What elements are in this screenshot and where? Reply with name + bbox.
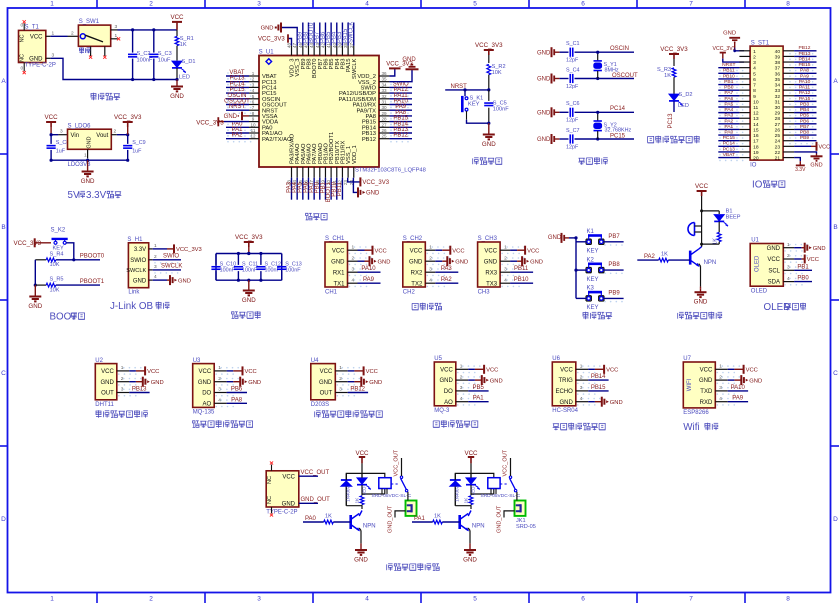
svg-text:5: 5 xyxy=(473,1,477,8)
svg-text:10: 10 xyxy=(753,99,759,105)
svg-text:13: 13 xyxy=(753,116,759,122)
svg-text:1K: 1K xyxy=(325,514,332,520)
S_CH1 pin2 GND port xyxy=(358,256,391,266)
relay wiring box xyxy=(346,473,385,505)
svg-text:40: 40 xyxy=(775,49,781,55)
resistor S_R4 10K xyxy=(35,251,100,268)
svg-text:7: 7 xyxy=(689,596,693,603)
svg-text:D: D xyxy=(833,516,838,523)
svg-text:STM32F103C8T6_LQFP48: STM32F103C8T6_LQFP48 xyxy=(355,168,426,174)
svg-text:VCC: VCC xyxy=(245,369,257,375)
svg-text:3: 3 xyxy=(257,596,261,603)
svg-text:3: 3 xyxy=(257,1,261,8)
connector TYPE-C-2P output xyxy=(266,461,299,516)
svg-text:GND: GND xyxy=(610,400,623,406)
MCU bottom pin leads and numbers xyxy=(287,167,354,185)
relay output terminal JK1 SRD-05 xyxy=(388,492,417,533)
svg-text:PB7: PB7 xyxy=(800,124,810,130)
svg-text:PA15: PA15 xyxy=(799,96,811,102)
svg-text:S_K2: S_K2 xyxy=(51,228,66,234)
svg-text:S_C3: S_C3 xyxy=(158,51,172,57)
svg-text:30: 30 xyxy=(775,105,781,111)
wire GND_OUT label xyxy=(299,497,330,503)
svg-text:8: 8 xyxy=(252,111,255,116)
svg-text:33: 33 xyxy=(381,88,387,93)
U7 pin4 net PA9 xyxy=(728,396,748,402)
wire LDO Vout to VCC_3V3 xyxy=(111,129,129,137)
capacitor S_C12 100nF xyxy=(256,254,281,281)
ST1 pin22 GND xyxy=(794,152,823,169)
module U7 ESP8266 body xyxy=(683,356,740,416)
OLED module U1 body xyxy=(750,238,808,295)
svg-text:32: 32 xyxy=(381,94,387,99)
svg-text:1uF: 1uF xyxy=(56,149,66,155)
key K2 wires and net PB8 xyxy=(576,262,624,274)
capacitor S_C3 10uF xyxy=(149,30,172,80)
svg-text:2: 2 xyxy=(753,54,756,60)
svg-text:PA0: PA0 xyxy=(305,516,317,522)
capacitor S_C9 1uF xyxy=(123,135,146,161)
relay contact and VCC_OUT xyxy=(500,449,517,492)
transistor NPN alarm xyxy=(690,243,716,267)
svg-text:VCC_3V3: VCC_3V3 xyxy=(235,234,263,241)
svg-text:VCC: VCC xyxy=(30,34,43,40)
svg-text:38: 38 xyxy=(775,60,781,66)
svg-text:PA12: PA12 xyxy=(799,90,811,96)
svg-text:LED: LED xyxy=(361,486,366,496)
svg-text:ESP8266: ESP8266 xyxy=(683,410,709,416)
relay LED xyxy=(466,473,480,495)
switch label kai-guan xyxy=(80,47,85,53)
svg-text:3: 3 xyxy=(115,24,118,30)
svg-text:VCC: VCC xyxy=(452,248,464,254)
svg-text:19: 19 xyxy=(753,150,759,156)
svg-text:Vout: Vout xyxy=(96,133,108,139)
svg-text:PA2: PA2 xyxy=(724,118,733,124)
svg-text:8MHz: 8MHz xyxy=(605,68,619,74)
svg-text:PB6: PB6 xyxy=(800,118,810,124)
ST1 left pin leads xyxy=(739,51,750,158)
svg-text:8: 8 xyxy=(753,88,756,94)
svg-text:1N4007: 1N4007 xyxy=(455,486,460,502)
S_CH2 pin1 VCC port xyxy=(435,246,464,255)
svg-text:VCC_3V3: VCC_3V3 xyxy=(258,37,285,43)
ST1 ground port to pin 1 xyxy=(723,31,744,53)
svg-text:25: 25 xyxy=(381,134,387,139)
MCU top net wires GND and VCC_3V3 xyxy=(258,23,297,46)
resistor 1K in LED branch xyxy=(702,232,722,245)
svg-text:11: 11 xyxy=(753,105,758,111)
svg-text:PA6: PA6 xyxy=(724,96,733,102)
svg-text:PA1: PA1 xyxy=(414,516,426,522)
svg-text:24: 24 xyxy=(775,139,781,145)
svg-text:RX3: RX3 xyxy=(485,270,497,276)
svg-text:4: 4 xyxy=(365,596,369,603)
svg-text:AO: AO xyxy=(203,401,212,407)
svg-text:D: D xyxy=(1,516,6,523)
svg-text:VCC_3V3: VCC_3V3 xyxy=(713,46,736,52)
key bus wire xyxy=(574,236,577,298)
power port VCC xyxy=(170,14,184,30)
ground for keys xyxy=(548,233,576,243)
MCU bottom pin names xyxy=(290,132,358,164)
svg-text:NC: NC xyxy=(267,496,273,504)
svg-text:GND: GND xyxy=(178,278,191,284)
svg-text:PA7: PA7 xyxy=(724,90,733,96)
svg-text:4: 4 xyxy=(352,278,355,284)
key K3 wires and net PB9 xyxy=(576,290,624,302)
U6 pin1 vcc VCC xyxy=(588,365,618,374)
U5 pin3 net PB5 xyxy=(468,385,488,391)
key K1 wires and net PB7 xyxy=(576,234,624,246)
svg-text:35: 35 xyxy=(775,77,781,83)
svg-text:39: 39 xyxy=(775,54,781,60)
svg-text:VCC_OUT: VCC_OUT xyxy=(503,449,509,476)
U3 pin4 net PA8 xyxy=(227,397,247,403)
svg-text:SWCLK: SWCLK xyxy=(352,58,358,79)
J-Link pin 2 SWIO xyxy=(149,254,181,264)
svg-text:36: 36 xyxy=(381,71,387,76)
svg-text:VCC_OUT: VCC_OUT xyxy=(394,449,400,476)
svg-text:Vin: Vin xyxy=(71,133,80,139)
svg-text:PA11: PA11 xyxy=(799,85,811,91)
svg-text:18: 18 xyxy=(753,144,759,150)
wire T1 GND down to bottom rail xyxy=(46,52,133,79)
svg-text:K2: K2 xyxy=(587,257,595,263)
power port VCC_3V3 reset xyxy=(475,42,503,63)
svg-text:3: 3 xyxy=(252,82,255,87)
svg-text:34: 34 xyxy=(775,83,781,89)
power port VCC_3V3 at LDO output xyxy=(114,114,142,135)
svg-text:23: 23 xyxy=(775,144,781,150)
MCU VDD_1 to VCC_3V3 xyxy=(348,177,390,186)
S_CH1 pin4 net PA9 xyxy=(358,277,381,283)
caption human infrared module xyxy=(315,411,321,418)
svg-text:VCC_3V3: VCC_3V3 xyxy=(362,180,389,186)
connector S_T1 TYPE-C-2P xyxy=(19,23,56,72)
svg-text:TX1: TX1 xyxy=(333,281,345,287)
svg-text:TYPE-C-2P: TYPE-C-2P xyxy=(25,63,56,69)
svg-text:MQ-135: MQ-135 xyxy=(193,410,215,416)
svg-text:DHT11: DHT11 xyxy=(95,402,114,408)
svg-text:VCC: VCC xyxy=(355,450,369,457)
svg-text:PA3: PA3 xyxy=(724,113,733,119)
svg-text:VCC_3V3: VCC_3V3 xyxy=(176,247,202,253)
S_CH3 pin3 net PB11 xyxy=(510,266,533,272)
svg-text:GND: GND xyxy=(810,163,822,169)
svg-text:PB11: PB11 xyxy=(514,266,529,272)
S_CH3 pin2 GND port xyxy=(510,256,543,266)
svg-text:C: C xyxy=(833,370,838,377)
svg-text:6: 6 xyxy=(581,1,585,8)
capacitor S_C8 1uF xyxy=(47,135,70,161)
svg-text:SCL: SCL xyxy=(768,268,780,274)
svg-text:21: 21 xyxy=(775,156,781,162)
svg-text:PA1: PA1 xyxy=(724,124,733,130)
caption mixed gas detect module xyxy=(193,421,199,428)
svg-text:LED: LED xyxy=(179,75,190,81)
ground filter xyxy=(242,280,256,304)
svg-text:GND: GND xyxy=(170,93,184,100)
svg-text:KEY: KEY xyxy=(468,101,480,107)
crystal cap S_C6 row PC14 xyxy=(537,101,634,124)
svg-text:7: 7 xyxy=(252,105,255,110)
svg-text:S_D1: S_D1 xyxy=(182,59,196,65)
svg-text:1K: 1K xyxy=(664,73,671,79)
svg-text:Wifi: Wifi xyxy=(683,422,699,433)
svg-text:4: 4 xyxy=(504,278,507,284)
svg-text:GND: GND xyxy=(537,111,551,117)
svg-text:VCC: VCC xyxy=(282,475,295,481)
svg-text:VCC: VCC xyxy=(320,369,333,375)
svg-text:GND: GND xyxy=(28,303,42,310)
svg-text:VCC: VCC xyxy=(807,257,819,263)
svg-text:VCC_3V3: VCC_3V3 xyxy=(196,119,224,126)
svg-text:GND: GND xyxy=(151,380,164,386)
svg-text:GND: GND xyxy=(537,50,551,56)
filter top and bottom rails xyxy=(216,252,282,282)
svg-text:26: 26 xyxy=(381,128,387,133)
svg-text:34: 34 xyxy=(381,82,387,87)
svg-text:GND: GND xyxy=(749,378,762,384)
svg-text:GND: GND xyxy=(81,178,95,185)
ST1 left net wires xyxy=(718,62,743,161)
svg-text:CH2: CH2 xyxy=(403,289,416,295)
svg-text:12pF: 12pF xyxy=(566,58,579,64)
svg-text:GND: GND xyxy=(530,259,543,265)
svg-text:5: 5 xyxy=(753,71,756,77)
svg-text:2: 2 xyxy=(504,256,507,262)
svg-text:SWCLK: SWCLK xyxy=(161,264,182,270)
svg-text:20: 20 xyxy=(753,156,759,162)
MCU right net wires and labels xyxy=(389,81,412,142)
svg-text:1K: 1K xyxy=(464,497,470,504)
svg-text:1K: 1K xyxy=(180,42,187,48)
svg-text:GND_OUT: GND_OUT xyxy=(388,505,394,533)
svg-text:SWCLK: SWCLK xyxy=(126,268,146,274)
svg-text:PA9: PA9 xyxy=(363,277,375,283)
svg-text:PA9: PA9 xyxy=(732,396,744,402)
svg-text:PB13: PB13 xyxy=(799,51,811,57)
ST1 right pin leads xyxy=(783,51,794,158)
power port VCC_3V3 at MCU VDDA xyxy=(196,117,249,126)
svg-text:GND: GND xyxy=(198,380,212,386)
svg-text:27: 27 xyxy=(381,122,387,127)
svg-text:PB14: PB14 xyxy=(591,374,606,380)
power port VCC_3V3 at MCU VDD_2 xyxy=(386,61,413,76)
U6 pin4 gnd GND xyxy=(588,397,622,407)
caption temperature-humidity module xyxy=(96,410,102,418)
svg-text:PB10: PB10 xyxy=(514,277,529,283)
ST1 pin21 3.3V xyxy=(794,158,806,174)
relay emitter ground xyxy=(463,528,477,564)
svg-text:OLED: OLED xyxy=(754,255,760,272)
svg-text:PB10: PB10 xyxy=(723,73,735,79)
S_CH2 pin2 GND port xyxy=(435,256,468,266)
svg-text:KEY: KEY xyxy=(587,249,599,255)
svg-text:TX2: TX2 xyxy=(411,281,423,287)
svg-text:2: 2 xyxy=(71,30,74,36)
svg-text:1: 1 xyxy=(84,153,87,159)
svg-text:VCC: VCC xyxy=(45,114,59,121)
junction on VCC rail xyxy=(131,28,155,31)
LDO bottom rail and ground xyxy=(50,159,130,185)
svg-text:GND: GND xyxy=(248,380,261,386)
svg-text:1: 1 xyxy=(352,245,355,251)
LED S_D2 xyxy=(669,92,693,112)
svg-text:2: 2 xyxy=(154,254,157,260)
svg-text:3.3V: 3.3V xyxy=(134,247,146,253)
alarm base resistor 1K and net xyxy=(637,252,690,263)
power port VCC_3V3 filter xyxy=(235,234,263,254)
MCU top net vertical wires and labels xyxy=(298,22,355,46)
svg-text:SRD-05: SRD-05 xyxy=(516,524,536,530)
svg-text:35: 35 xyxy=(381,77,387,82)
svg-text:VCC: VCC xyxy=(486,368,498,374)
svg-text:S_C2: S_C2 xyxy=(137,51,151,57)
svg-text:17: 17 xyxy=(753,139,759,145)
relay series resistor 1K xyxy=(355,496,364,506)
svg-text:OUT: OUT xyxy=(320,391,333,397)
svg-text:S_R4: S_R4 xyxy=(50,251,64,257)
svg-text:S_C9: S_C9 xyxy=(132,140,146,146)
bottom rail wire xyxy=(131,78,179,81)
caption crystal circuit xyxy=(578,158,585,165)
svg-text:2: 2 xyxy=(149,1,153,8)
svg-text:31: 31 xyxy=(775,99,781,105)
capacitor S_C11 100nF xyxy=(234,254,258,281)
ground at MCU VSS_2 xyxy=(389,57,418,82)
svg-text:48: 48 xyxy=(287,42,292,48)
svg-text:GND: GND xyxy=(439,378,453,384)
svg-text:AO: AO xyxy=(444,400,453,406)
svg-text:4: 4 xyxy=(365,1,369,8)
svg-text:NRST: NRST xyxy=(722,62,735,68)
svg-text:3.3V: 3.3V xyxy=(795,167,806,173)
svg-text:VCC: VCC xyxy=(700,367,713,373)
U6 pin3 net PB15 xyxy=(588,385,608,391)
svg-text:GND: GND xyxy=(366,191,380,197)
svg-text:VCC_3V3: VCC_3V3 xyxy=(114,114,142,121)
svg-text:4: 4 xyxy=(429,278,432,284)
svg-text:PA10: PA10 xyxy=(799,79,811,85)
svg-text:GND: GND xyxy=(402,57,416,63)
caption reset circuit xyxy=(473,158,479,165)
svg-text:100nF: 100nF xyxy=(220,268,236,274)
svg-text:PC14: PC14 xyxy=(723,141,736,147)
svg-text:GND: GND xyxy=(319,380,333,386)
svg-text:PA4: PA4 xyxy=(724,107,733,113)
svg-text:PB12: PB12 xyxy=(350,387,365,393)
svg-text:12: 12 xyxy=(753,111,759,117)
svg-text:C: C xyxy=(1,370,6,377)
svg-text:1: 1 xyxy=(115,33,118,39)
svg-text:GND: GND xyxy=(559,400,573,406)
svg-text:NPN: NPN xyxy=(363,524,376,530)
svg-text:TX3: TX3 xyxy=(486,281,498,287)
svg-text:1: 1 xyxy=(504,245,507,251)
ground port at MCU VSSA xyxy=(224,112,249,121)
J-Link pin 1 to VCC_3V3 xyxy=(149,243,202,254)
U7 pin3 net PA10 xyxy=(728,385,748,391)
svg-text:VCC: VCC xyxy=(746,368,758,374)
svg-text:4: 4 xyxy=(154,274,157,280)
svg-text:PB12: PB12 xyxy=(799,45,811,51)
svg-text:6: 6 xyxy=(252,100,255,105)
no-connect marks on S_SW1 xyxy=(89,37,120,59)
svg-text:PA3: PA3 xyxy=(441,266,453,272)
key K3 xyxy=(586,286,604,312)
svg-text:100nF: 100nF xyxy=(137,58,153,64)
MCU S_U1 STM32F103C8T6_LQFP48 body xyxy=(259,49,426,173)
U3 pin3 net PB6 xyxy=(227,387,247,393)
wire VCC to LDO Vin xyxy=(50,129,68,137)
svg-text:PA2/TX/AO: PA2/TX/AO xyxy=(262,137,292,143)
module U4 D203S body xyxy=(311,358,360,408)
svg-text:PB5: PB5 xyxy=(800,113,810,119)
svg-text:2: 2 xyxy=(429,256,432,262)
svg-text:PC13: PC13 xyxy=(668,113,674,129)
crystal cap S_C7 row PC15 xyxy=(537,128,634,151)
svg-text:PA8: PA8 xyxy=(231,397,243,403)
svg-text:J-Link OB: J-Link OB xyxy=(110,301,153,312)
S_CH3 pin1 VCC port xyxy=(510,246,539,255)
svg-text:SRD-05VDC-SL-C: SRD-05VDC-SL-C xyxy=(372,493,412,499)
relay driver VCC port (net PA0) xyxy=(355,450,369,473)
svg-text:7: 7 xyxy=(753,83,756,89)
MCU right pin names xyxy=(339,74,377,143)
U7 pin1 vcc VCC xyxy=(728,365,758,374)
svg-text:VCC: VCC xyxy=(464,450,478,457)
svg-text:1uF: 1uF xyxy=(132,149,142,155)
relay driver VCC port (net PA1) xyxy=(464,450,478,473)
module U6 HC-SR04 body xyxy=(552,356,600,414)
svg-text:6: 6 xyxy=(753,77,756,83)
svg-text:3.3V: 3.3V xyxy=(86,190,107,201)
svg-text:GND: GND xyxy=(282,502,296,508)
caption power circuit xyxy=(91,93,97,101)
OLED pin3 net PB1 xyxy=(794,264,812,270)
svg-text:1: 1 xyxy=(52,30,55,36)
connector S_CH1 serial xyxy=(325,236,372,295)
svg-text:1: 1 xyxy=(429,245,432,251)
svg-text:VDD_1: VDD_1 xyxy=(352,145,358,164)
wire key to PBOOT0 node xyxy=(66,243,74,260)
S_CH2 pin3 net PA3 xyxy=(435,266,458,272)
MCU top pin leads and numbers xyxy=(287,42,354,55)
svg-text:VCC: VCC xyxy=(170,14,184,21)
svg-text:B: B xyxy=(1,224,5,231)
caption sound light alarm circuit xyxy=(678,312,684,319)
svg-text:ECHO: ECHO xyxy=(555,389,573,395)
svg-text:D203S: D203S xyxy=(311,402,329,408)
svg-text:28: 28 xyxy=(381,117,387,122)
svg-text:GND: GND xyxy=(694,299,708,306)
svg-text:PB7: PB7 xyxy=(608,234,620,240)
svg-text:15: 15 xyxy=(753,127,759,133)
key S_K2 xyxy=(51,228,68,252)
svg-text:RXD: RXD xyxy=(700,400,713,406)
svg-text:28: 28 xyxy=(775,116,781,122)
svg-text:IO: IO xyxy=(752,179,763,190)
svg-text:PB15: PB15 xyxy=(799,62,811,68)
svg-text:3: 3 xyxy=(52,52,55,58)
buzzer xyxy=(688,223,702,245)
svg-text:8: 8 xyxy=(786,1,790,8)
svg-text:1: 1 xyxy=(154,243,157,249)
MCU left net wires and labels xyxy=(224,70,251,143)
svg-text:PA5: PA5 xyxy=(724,101,733,107)
